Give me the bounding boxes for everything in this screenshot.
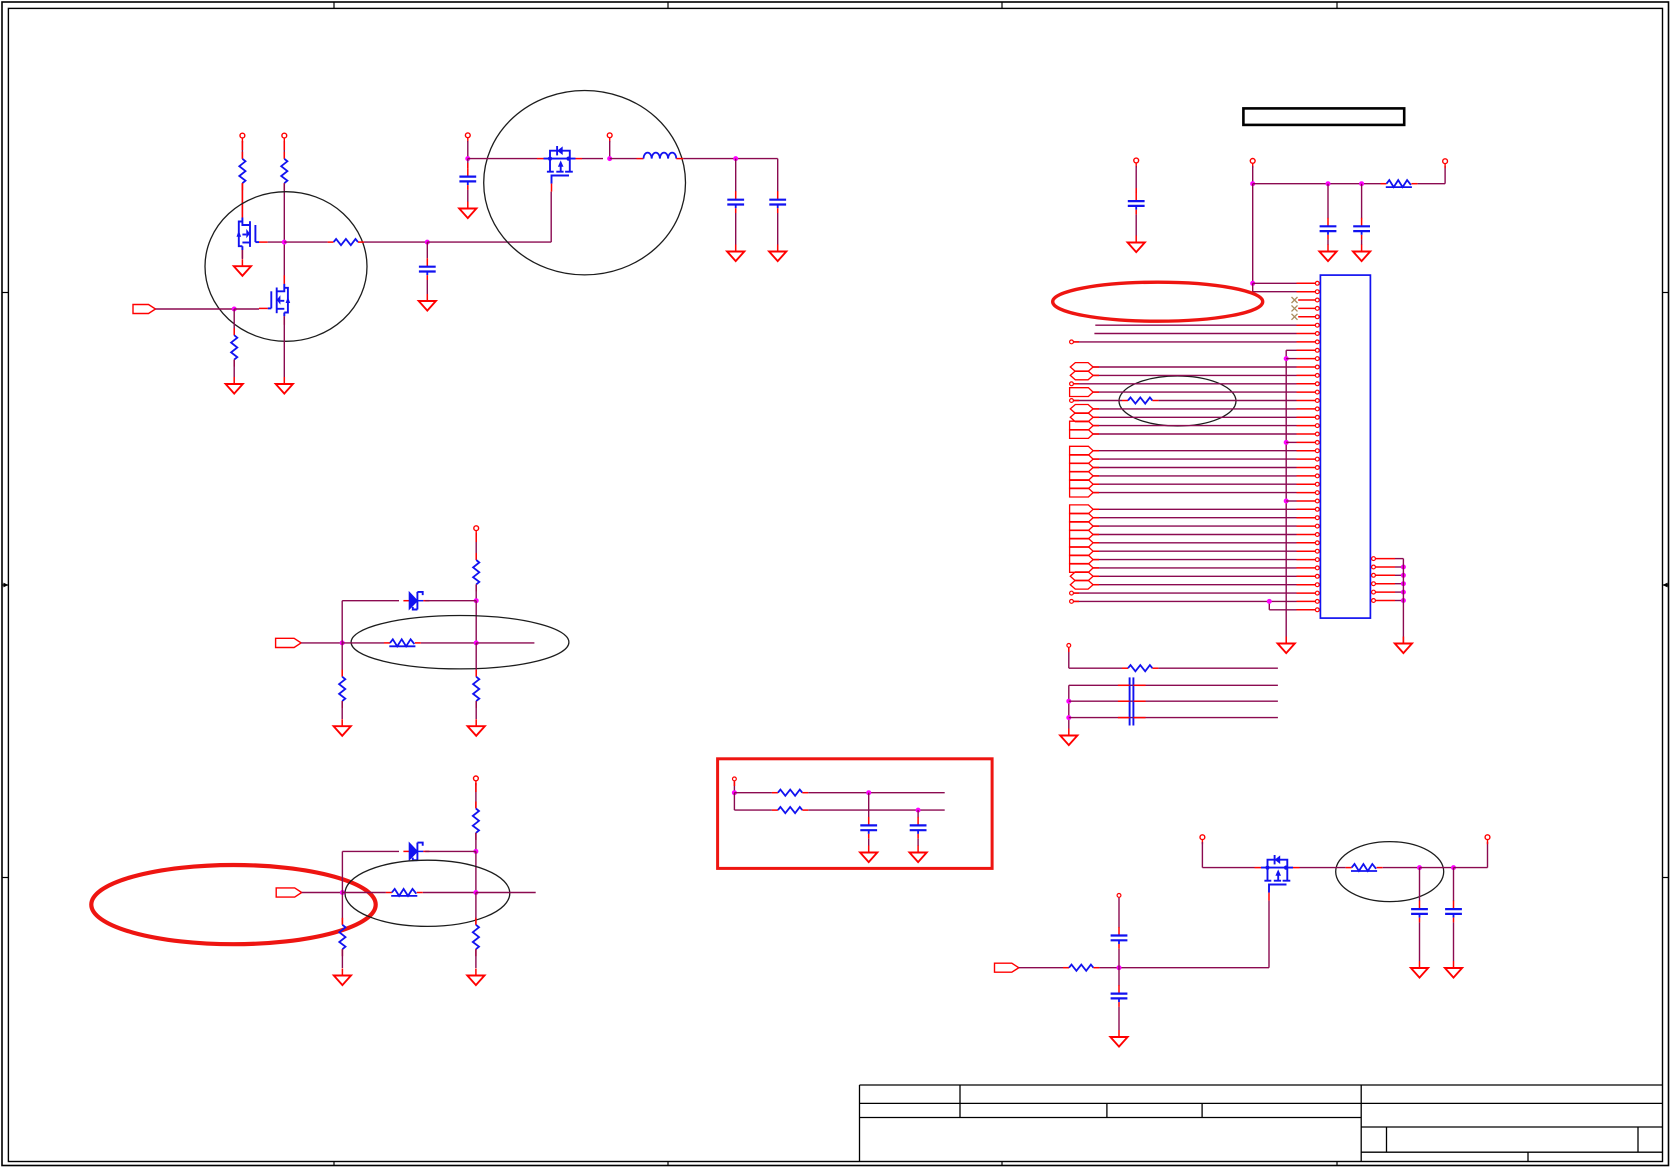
- net label (output): [1070, 455, 1094, 464]
- wire: [1268, 901, 1270, 968]
- wire: [735, 159, 737, 192]
- power node V10: [1250, 159, 1255, 168]
- connector pin 26: [1297, 491, 1320, 495]
- junction: [732, 790, 737, 795]
- ground: [1411, 961, 1428, 978]
- ground: [727, 245, 744, 262]
- wire: [341, 701, 343, 719]
- wire: [301, 642, 342, 644]
- wire: [342, 600, 399, 602]
- power node V8: [1485, 835, 1490, 844]
- resistor R14: [772, 807, 808, 813]
- net label (bidirectional): [1070, 363, 1093, 372]
- net label (output): [1070, 421, 1094, 430]
- wire: [733, 793, 735, 810]
- capacitor C5: [860, 817, 877, 839]
- resistor R7: [339, 670, 345, 708]
- net label (output): [1070, 522, 1094, 531]
- connector pin 31: [1297, 533, 1320, 537]
- connector pin 37: [1297, 583, 1320, 587]
- wire: [1073, 600, 1296, 602]
- frame tick left: [2, 292, 8, 294]
- transistor Q2: [259, 275, 290, 325]
- junction: [607, 156, 612, 161]
- wire: [426, 242, 428, 258]
- wire: [475, 851, 477, 892]
- wire: [284, 241, 327, 243]
- resistor R11: [339, 918, 345, 956]
- power node V2: [282, 133, 287, 142]
- highlight red ellipse (marker): [91, 865, 375, 944]
- junction: [1117, 965, 1122, 970]
- net label (output): [1070, 538, 1094, 547]
- wire: [1418, 183, 1446, 185]
- frame tick top: [333, 2, 335, 8]
- connector pin 34: [1297, 558, 1320, 562]
- wire: [364, 241, 427, 243]
- wire: [425, 600, 476, 602]
- capacitor C9: [1111, 927, 1128, 949]
- wire: [241, 183, 243, 217]
- net label (output): [1070, 480, 1094, 489]
- wire: [302, 892, 343, 894]
- wire: [1327, 240, 1329, 245]
- connector right pin 6: [1372, 599, 1404, 603]
- wire: [341, 893, 343, 925]
- no-connect X: [1292, 297, 1298, 303]
- net node: [733, 777, 737, 781]
- wire: [1093, 475, 1296, 477]
- net label (output): [1070, 463, 1094, 472]
- wire: [1093, 575, 1296, 577]
- wire: [683, 158, 777, 160]
- no-connect X: [1292, 305, 1298, 311]
- net label (output): [1070, 555, 1094, 564]
- junction: [1401, 581, 1406, 586]
- net node: [1070, 600, 1074, 604]
- wire: [476, 642, 534, 644]
- wire: [1093, 467, 1296, 469]
- ground: [459, 202, 476, 219]
- junction: [1326, 181, 1331, 186]
- resistor R6: [384, 639, 421, 646]
- frame tick bottom: [667, 1162, 669, 1166]
- connector right pin 2: [1372, 565, 1404, 569]
- wire: [1069, 700, 1278, 702]
- wire: [1093, 534, 1296, 536]
- wire: [1093, 483, 1296, 485]
- wire: [1093, 433, 1296, 435]
- connector pin 8: [1297, 340, 1320, 344]
- junction: [1066, 699, 1071, 704]
- title block: [860, 1085, 1663, 1162]
- frame tick left: [2, 877, 8, 879]
- connector pin 14: [1297, 390, 1320, 394]
- transistor Q3: [537, 146, 582, 192]
- connector pin 15: [1297, 399, 1320, 403]
- net label (output): [1070, 530, 1094, 539]
- junction: [232, 307, 237, 312]
- wire: [1093, 366, 1296, 368]
- wire: [342, 642, 384, 644]
- resistor R18: [1122, 397, 1158, 403]
- wire bus: [1285, 350, 1287, 643]
- junction: [1284, 440, 1289, 445]
- wire: [1253, 183, 1381, 185]
- wire bus right: [1402, 559, 1404, 644]
- frame centre arrow right: [1663, 583, 1669, 588]
- wire: [1419, 868, 1421, 902]
- resistor R3: [231, 328, 237, 366]
- highlight ellipse around R18: [1119, 376, 1236, 426]
- wire: [1286, 349, 1296, 351]
- wire: [1093, 450, 1296, 452]
- power node V6: [474, 776, 479, 785]
- wire: [777, 159, 779, 192]
- wire: [1158, 400, 1296, 402]
- net label (output): [1070, 430, 1094, 439]
- wire: [808, 792, 944, 794]
- wire: [475, 949, 477, 968]
- wire: [1073, 400, 1122, 402]
- junction: [473, 849, 478, 854]
- resistor R10: [386, 889, 423, 896]
- resistor R1: [239, 152, 245, 190]
- wire: [1420, 867, 1454, 869]
- resistor R4: [328, 239, 364, 245]
- frame tick top: [667, 2, 669, 8]
- connector pin 12: [1297, 374, 1320, 378]
- wire: [475, 701, 477, 719]
- wire: [1158, 667, 1278, 669]
- junction: [340, 640, 345, 645]
- connector pin 1: [1297, 281, 1320, 285]
- ground: [234, 259, 251, 276]
- wire: [1252, 184, 1254, 284]
- connector pin 35: [1297, 566, 1320, 570]
- connector pin 11: [1297, 365, 1320, 369]
- wire: [425, 850, 476, 852]
- junction: [1417, 865, 1422, 870]
- ground: [769, 245, 786, 262]
- frame tick top: [1336, 2, 1338, 8]
- wire: [1019, 967, 1063, 969]
- ground: [419, 294, 436, 311]
- wire: [475, 643, 477, 677]
- capacitor C7: [1411, 901, 1428, 923]
- ground: [334, 719, 351, 736]
- junction: [1359, 181, 1364, 186]
- wire: [342, 850, 399, 852]
- connector pin 39: [1297, 600, 1320, 604]
- highlight red rectangle (marker): [718, 759, 993, 869]
- wire: [1099, 967, 1119, 969]
- wire: [156, 308, 235, 310]
- wire: [467, 190, 469, 202]
- junction: [733, 156, 738, 161]
- wire: [1253, 291, 1297, 293]
- connector pin 17: [1297, 415, 1320, 419]
- connector pin 18: [1297, 424, 1320, 428]
- wire: [808, 809, 944, 811]
- wire: [1069, 684, 1278, 686]
- resistor R13: [772, 790, 808, 796]
- junction node G: [282, 240, 287, 245]
- resistor R8: [473, 670, 479, 708]
- resistor R5: [473, 553, 479, 591]
- wire: [341, 851, 343, 892]
- capacitor C10: [1111, 985, 1128, 1007]
- wire: [1093, 425, 1296, 427]
- wire net pin7: [1094, 333, 1296, 335]
- ground: [334, 969, 351, 986]
- connector pin 4: [1298, 307, 1319, 311]
- wire: [1069, 667, 1122, 669]
- junction: [1250, 181, 1255, 186]
- ground: [1395, 637, 1412, 654]
- connector pin 7: [1297, 332, 1320, 336]
- net label (output): [1070, 472, 1094, 481]
- transistor Q1: [237, 209, 268, 259]
- junction: [465, 156, 470, 161]
- wire pin40 jog: [1269, 609, 1296, 611]
- wire: [423, 892, 476, 894]
- frame centre arrow left: [2, 583, 8, 588]
- capacitor C3: [727, 191, 744, 213]
- capacitor C8: [1445, 901, 1462, 923]
- resistor R17: [1381, 180, 1418, 187]
- wire: [1252, 166, 1254, 184]
- highlight ellipse around R10: [345, 860, 510, 926]
- power node V1: [240, 133, 245, 142]
- net label (output): [1070, 564, 1094, 573]
- connector pin 19: [1297, 432, 1320, 436]
- wire: [1093, 542, 1296, 544]
- wire: [735, 213, 737, 245]
- wire: [234, 308, 259, 310]
- ground: [276, 377, 293, 394]
- revision box: [1243, 108, 1404, 125]
- highlight red ellipse (marker) over pin area: [1053, 282, 1263, 321]
- ground: [860, 846, 877, 863]
- wire: [1093, 517, 1296, 519]
- wire: [1073, 341, 1296, 343]
- highlight circle around Q3 stage: [484, 91, 686, 275]
- connector right pin 4: [1372, 582, 1404, 586]
- highlight ellipse around R6: [351, 616, 569, 669]
- junction: [1284, 499, 1289, 504]
- capacitor C1: [459, 168, 476, 190]
- wire: [734, 809, 772, 811]
- net node: [1070, 591, 1074, 595]
- wire: [1252, 283, 1254, 291]
- connector pin 36: [1297, 574, 1320, 578]
- net label (bidirectional): [1070, 580, 1093, 589]
- wire: [233, 309, 235, 335]
- connector pin 16: [1297, 407, 1320, 411]
- net node: [1117, 894, 1121, 898]
- wire: [475, 601, 477, 643]
- wire: [475, 893, 477, 925]
- wire: [550, 192, 552, 243]
- inductor L1: [637, 153, 684, 159]
- connector pin 25: [1297, 482, 1320, 486]
- wire: [733, 781, 735, 793]
- wire: [421, 642, 476, 644]
- connector pin 2: [1297, 290, 1320, 294]
- wire: [1093, 408, 1296, 410]
- junction: [1066, 715, 1071, 720]
- connector pin 20: [1297, 441, 1320, 445]
- zener diode D2: [403, 843, 429, 861]
- wire: [341, 601, 343, 643]
- wire: [917, 810, 919, 817]
- wire: [1286, 500, 1296, 502]
- connector pin 6: [1297, 323, 1320, 327]
- net node: [1070, 382, 1074, 386]
- resistor R19: [1122, 665, 1158, 671]
- wire: [341, 643, 343, 677]
- junction: [1401, 565, 1406, 570]
- power node V5: [474, 526, 479, 535]
- wire: [1093, 374, 1296, 376]
- wire: [1268, 601, 1270, 609]
- power node V7: [1200, 835, 1205, 844]
- wire: [467, 159, 469, 169]
- wire: [1093, 391, 1296, 393]
- wire: [1327, 184, 1329, 219]
- wire: [582, 158, 603, 160]
- wire: [283, 316, 285, 377]
- ground: [1060, 729, 1077, 746]
- wire: [283, 183, 285, 284]
- ground: [1128, 236, 1145, 253]
- junction: [1284, 356, 1289, 361]
- junction: [916, 808, 921, 813]
- ground: [1278, 637, 1295, 654]
- net node pin8: [1070, 340, 1074, 344]
- resistor R12: [473, 918, 479, 956]
- zener diode D1: [403, 592, 429, 610]
- wire: [1118, 1007, 1120, 1030]
- frame tick right: [1663, 877, 1669, 879]
- input port IN1: [133, 305, 156, 314]
- wire: [1453, 868, 1455, 902]
- wire net pin6: [1095, 324, 1296, 326]
- ground: [468, 719, 485, 736]
- net label (bidirectional): [1070, 371, 1093, 380]
- junction: [473, 890, 478, 895]
- connector pin 29: [1297, 516, 1320, 520]
- connector pin 30: [1297, 524, 1320, 528]
- connector pin 3: [1298, 298, 1319, 302]
- wire: [1068, 647, 1070, 668]
- wire: [1201, 842, 1203, 868]
- junction: [1267, 599, 1272, 604]
- connector right pin 1: [1372, 557, 1404, 561]
- wire: [233, 360, 235, 377]
- wire: [1135, 214, 1137, 236]
- connector pin 13: [1297, 382, 1320, 386]
- wire: [1073, 383, 1296, 385]
- net label (bidirectional): [1070, 572, 1093, 581]
- connector right pin 5: [1372, 590, 1404, 594]
- wire: [475, 533, 477, 560]
- wire: [1361, 184, 1363, 219]
- capacitor C2: [419, 258, 436, 280]
- wire: [1093, 567, 1296, 569]
- capacitor array C14 (vertical plates): [1118, 677, 1146, 725]
- wire: [475, 783, 477, 809]
- wire: [868, 839, 870, 846]
- wire: [1419, 922, 1421, 961]
- wire: [475, 584, 477, 600]
- resistor R9: [473, 802, 479, 840]
- wire: [1383, 867, 1420, 869]
- junction: [1401, 573, 1406, 578]
- power node V4: [607, 133, 612, 142]
- ground: [1110, 1030, 1127, 1047]
- wire: [1361, 240, 1363, 245]
- resistor R2: [281, 152, 287, 190]
- no-connect X: [1292, 314, 1298, 320]
- connector pin 24: [1297, 474, 1320, 478]
- wire: [1073, 592, 1296, 594]
- wire: [1453, 922, 1455, 961]
- connector pin 32: [1297, 541, 1320, 545]
- wire: [1286, 358, 1296, 360]
- net label (output): [1070, 505, 1094, 514]
- net node: [1067, 644, 1071, 648]
- capacitor C12: [1320, 218, 1337, 240]
- ground: [467, 969, 484, 986]
- wire: [1093, 416, 1296, 418]
- wire: [1093, 508, 1296, 510]
- power node V9: [1134, 158, 1139, 167]
- wire: [917, 839, 919, 846]
- wire: [1300, 867, 1346, 869]
- highlight circle around Q1/Q2: [205, 192, 367, 342]
- connector pin 23: [1297, 466, 1320, 470]
- wire: [1068, 685, 1070, 728]
- wire: [609, 141, 611, 159]
- wire: [241, 141, 243, 159]
- net label (output): [1070, 547, 1094, 556]
- wire: [1253, 282, 1297, 284]
- junction node C: [425, 240, 430, 245]
- ground: [226, 377, 243, 394]
- connector pin 33: [1297, 549, 1320, 553]
- ground: [910, 846, 927, 863]
- power node V3: [465, 133, 470, 142]
- net label (bidirectional): [1070, 413, 1093, 422]
- capacitor C6: [910, 817, 927, 839]
- wire: [1202, 867, 1254, 869]
- net label (output): [1070, 446, 1094, 455]
- connector pin 27: [1297, 499, 1320, 503]
- ground: [1445, 961, 1462, 978]
- junction: [474, 640, 479, 645]
- connector pin 9: [1297, 348, 1320, 352]
- resistor R16: [1063, 965, 1099, 971]
- capacitor C4: [769, 191, 786, 213]
- connector pin 40: [1297, 608, 1320, 612]
- wire: [1487, 842, 1489, 868]
- net label (bidirectional): [1070, 405, 1093, 414]
- capacitor C11: [1128, 193, 1145, 215]
- connector right pin 3: [1372, 573, 1404, 577]
- wire: [734, 792, 772, 794]
